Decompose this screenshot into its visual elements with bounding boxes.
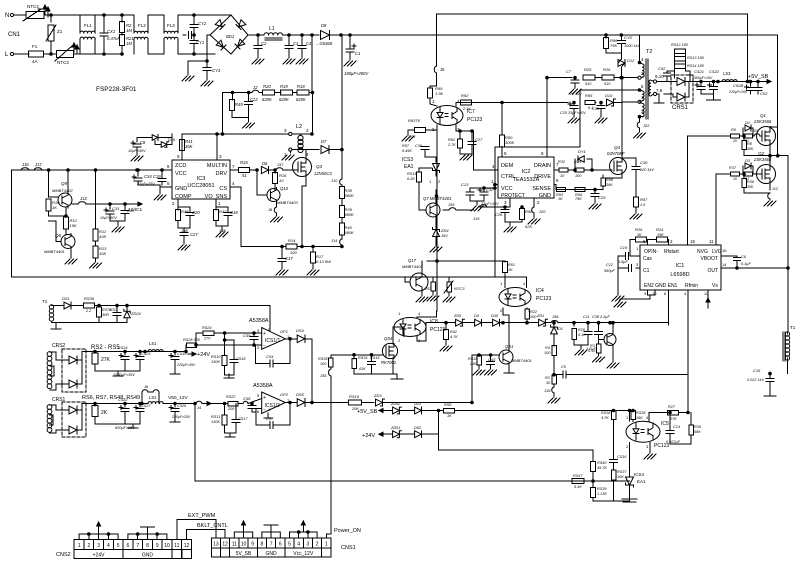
svg-text:NTC4: NTC4 xyxy=(27,4,39,9)
svg-text:C326: C326 xyxy=(177,404,187,408)
resistor R48 xyxy=(176,205,190,233)
svg-text:Q4: Q4 xyxy=(614,145,621,150)
svg-text:16: 16 xyxy=(722,248,727,253)
svg-text:220µF×35V: 220µF×35V xyxy=(176,363,196,367)
capacitor CS2B xyxy=(728,80,755,94)
svg-text:C4: C4 xyxy=(306,41,312,46)
svg-text:10: 10 xyxy=(560,174,565,178)
svg-text:2: 2 xyxy=(172,201,175,206)
svg-text:DS1: DS1 xyxy=(62,296,70,301)
svg-text:MMBT4401: MMBT4401 xyxy=(511,358,532,363)
svg-text:J17: J17 xyxy=(35,162,42,167)
capacitor C27 xyxy=(460,131,483,160)
IC U1 box xyxy=(640,245,722,290)
mosfet Q1 xyxy=(753,113,778,156)
capacitor C10 xyxy=(110,203,135,232)
capacitor CS16 xyxy=(610,455,628,470)
svg-text:2SK3568: 2SK3568 xyxy=(753,157,772,162)
svg-text:Cas: Cas xyxy=(643,256,652,262)
resistor R98b xyxy=(520,206,534,229)
svg-text:GND: GND xyxy=(266,551,278,557)
svg-text:IC8: IC8 xyxy=(430,319,438,325)
svg-text:10: 10 xyxy=(164,543,170,549)
svg-text:RS22: RS22 xyxy=(226,395,236,399)
capacitor C39 xyxy=(592,103,607,124)
capacitor C32 xyxy=(470,187,499,211)
diode D16 xyxy=(155,138,175,148)
pin12 Vs xyxy=(704,290,710,308)
svg-text:Q10: Q10 xyxy=(280,186,289,191)
inductor LS3 xyxy=(717,71,748,83)
svg-text:CNS2: CNS2 xyxy=(56,552,71,558)
snubber C30 xyxy=(622,158,654,197)
resistor RS15 xyxy=(407,168,432,190)
svg-text:16K: 16K xyxy=(636,416,643,420)
capacitor CS24 xyxy=(118,346,129,371)
svg-text:R42: R42 xyxy=(219,209,227,214)
wire xyxy=(193,53,215,56)
svg-text:RS36: RS36 xyxy=(636,411,646,415)
capacitor C13 xyxy=(461,182,495,201)
pin 7 DRV xyxy=(230,164,238,170)
svg-text:100: 100 xyxy=(575,174,582,178)
diode D7 xyxy=(321,139,343,154)
svg-text:3: 3 xyxy=(257,328,260,333)
svg-text:EA1: EA1 xyxy=(637,479,646,484)
svg-text:1K: 1K xyxy=(508,268,513,272)
svg-text:RS24: RS24 xyxy=(202,326,212,330)
capacitor CY3 xyxy=(201,61,221,86)
resistor RS37 xyxy=(611,470,627,480)
svg-text:10µF×50V: 10µF×50V xyxy=(128,149,146,153)
svg-text:15: 15 xyxy=(690,239,696,244)
svg-text:2: 2 xyxy=(438,179,441,184)
resistor RS8 xyxy=(439,403,635,418)
svg-text:270: 270 xyxy=(203,337,211,341)
pin2 xyxy=(669,239,673,245)
pin3 PROTECT xyxy=(504,198,510,207)
svg-text:6: 6 xyxy=(556,178,559,183)
jumper J35 xyxy=(320,367,331,534)
resistor RS19 xyxy=(349,394,375,411)
svg-text:IC2: IC2 xyxy=(522,169,531,175)
svg-text:J15: J15 xyxy=(544,388,551,393)
connector CN1 xyxy=(5,13,21,58)
wire B+ sense xyxy=(341,35,343,179)
pin 3 xyxy=(216,133,222,160)
svg-text:1: 1 xyxy=(636,246,639,251)
svg-text:Vs: Vs xyxy=(712,283,718,289)
label +24V xyxy=(185,345,211,358)
capacitor C34 xyxy=(132,169,161,186)
svg-text:C2: C2 xyxy=(261,41,267,46)
svg-text:220µF×16V: 220µF×16V xyxy=(728,90,748,94)
pin 4 CS xyxy=(230,181,286,247)
svg-text:D52: D52 xyxy=(414,426,422,430)
svg-text:J36: J36 xyxy=(552,314,559,319)
svg-text:8: 8 xyxy=(261,542,264,548)
svg-text:BKLT_CNTL: BKLT_CNTL xyxy=(197,523,228,529)
diode D10 xyxy=(605,93,638,106)
svg-text:12: 12 xyxy=(222,542,228,548)
svg-text:GND: GND xyxy=(539,193,551,199)
zener ZD24 xyxy=(124,304,142,322)
thermistor NTC4 xyxy=(14,4,44,21)
wire xyxy=(104,15,122,54)
svg-text:11: 11 xyxy=(232,542,237,548)
svg-text:3: 3 xyxy=(636,262,639,267)
svg-text:PC123: PC123 xyxy=(536,296,552,302)
svg-text:DEM: DEM xyxy=(501,163,514,169)
capacitor C22 xyxy=(232,93,258,129)
pin3 C1 xyxy=(604,256,640,301)
resistor R98 xyxy=(601,178,614,190)
opamp ICS1-1 xyxy=(249,318,290,350)
svg-text:CN1: CN1 xyxy=(8,32,21,38)
pin 5 xyxy=(177,154,182,160)
capacitor C53 xyxy=(754,80,768,96)
IC ICS4 EA1 xyxy=(622,472,646,499)
svg-text:C53: C53 xyxy=(760,91,768,96)
svg-text:3: 3 xyxy=(97,543,100,549)
capacitor CS22b xyxy=(118,398,129,424)
svg-text:C12: C12 xyxy=(606,263,614,267)
svg-text:R15: R15 xyxy=(240,160,248,165)
resistor R95 xyxy=(585,93,596,110)
jumper J10 xyxy=(331,178,342,187)
svg-text:30R: 30R xyxy=(102,313,109,317)
svg-text:R92: R92 xyxy=(461,93,469,98)
svg-text:+24V: +24V xyxy=(362,433,375,439)
svg-text:8: 8 xyxy=(664,291,667,296)
svg-text:ZD52: ZD52 xyxy=(390,402,401,406)
resistor R92 xyxy=(461,93,472,111)
svg-text:R48: R48 xyxy=(181,209,189,214)
diode DY1 xyxy=(574,149,594,171)
resistor R4 xyxy=(544,346,556,377)
svg-text:10µF×50V: 10µF×50V xyxy=(100,216,117,220)
svg-text:3: 3 xyxy=(504,200,507,205)
svg-text:RS18: RS18 xyxy=(468,357,478,361)
svg-text:3: 3 xyxy=(284,128,287,133)
resistor R3 xyxy=(588,341,605,362)
capacitor C2 xyxy=(252,34,267,64)
svg-text:ZCD: ZCD xyxy=(175,163,186,169)
svg-text:D3: D3 xyxy=(745,159,751,163)
svg-text:1500µF×16V: 1500µF×16V xyxy=(692,76,713,80)
svg-text:11: 11 xyxy=(174,543,179,549)
svg-text:FL1: FL1 xyxy=(84,23,92,28)
wire xyxy=(312,93,314,135)
wire 5VSB top right xyxy=(746,14,749,83)
svg-text:2: 2 xyxy=(87,543,90,549)
wire 12v sense xyxy=(218,395,262,411)
svg-text:ICS4: ICS4 xyxy=(634,472,645,477)
svg-text:0.47uF: 0.47uF xyxy=(107,36,120,41)
svg-text:5.1K: 5.1K xyxy=(574,485,582,489)
transformer T1r xyxy=(783,325,796,374)
wire xyxy=(223,93,290,135)
diode DS5 xyxy=(290,392,348,406)
svg-text:D12: D12 xyxy=(627,58,635,63)
svg-text:10: 10 xyxy=(241,542,247,548)
svg-text:MMBT4403: MMBT4403 xyxy=(277,200,298,205)
inductor L2 xyxy=(223,124,320,160)
varistor Z1 xyxy=(46,15,63,54)
resistor R36 xyxy=(742,173,755,193)
svg-text:D6: D6 xyxy=(262,161,268,166)
svg-text:5: 5 xyxy=(257,393,260,398)
wire op1 vcc xyxy=(269,306,271,331)
wire Q3 source xyxy=(301,186,304,248)
svg-text:RS11: RS11 xyxy=(211,415,220,419)
svg-text:680K: 680K xyxy=(345,193,355,198)
svg-text:1: 1 xyxy=(398,311,401,316)
svg-text:LVG: LVG xyxy=(712,249,722,255)
svg-text:Rfmin: Rfmin xyxy=(685,283,698,289)
resistors RS12 RS13 RS14 xyxy=(671,43,705,78)
svg-text:CS9: CS9 xyxy=(243,334,251,338)
pin2 GND xyxy=(528,198,546,224)
svg-text:100: 100 xyxy=(320,362,327,366)
capacitor CS27 xyxy=(95,404,151,431)
svg-text:4: 4 xyxy=(646,415,649,420)
wire node xyxy=(302,34,319,37)
wire ic5 pin2 xyxy=(629,443,631,478)
svg-text:75K: 75K xyxy=(610,43,617,48)
resistor R16 xyxy=(273,169,288,190)
svg-text:OUT: OUT xyxy=(707,268,718,274)
svg-text:180µF×450V: 180µF×450V xyxy=(344,71,369,76)
capacitor C16 xyxy=(747,368,776,396)
mosfet QS4 xyxy=(354,327,404,379)
svg-text:10K: 10K xyxy=(99,251,106,256)
svg-text:ZD5: ZD5 xyxy=(453,314,462,318)
svg-text:DRAIN: DRAIN xyxy=(534,163,551,169)
label +24Vb xyxy=(362,432,392,439)
svg-text:12N50C3: 12N50C3 xyxy=(314,171,332,176)
svg-text:10: 10 xyxy=(279,178,284,183)
capacitor C38 xyxy=(592,315,610,341)
svg-text:1K: 1K xyxy=(558,197,563,201)
svg-text:V50_12V: V50_12V xyxy=(168,395,189,401)
resistor RS6 xyxy=(92,402,108,424)
zener ZD52 xyxy=(390,402,414,414)
svg-text:Power_ON: Power_ON xyxy=(334,528,361,534)
wire 481 xyxy=(195,480,630,482)
svg-text:6.2K: 6.2K xyxy=(407,177,415,181)
svg-text:RS34: RS34 xyxy=(358,356,368,360)
pin15 NVG xyxy=(688,136,696,245)
resistor R24 xyxy=(630,227,669,256)
svg-text:LS1: LS1 xyxy=(149,341,157,346)
svg-text:C33 33µF×50V: C33 33µF×50V xyxy=(560,111,586,115)
svg-text:CS8: CS8 xyxy=(243,397,251,401)
diode D30 xyxy=(491,314,537,326)
svg-text:5: 5 xyxy=(177,154,180,159)
pin9 pin10 xyxy=(614,290,657,307)
capacitor CS15 xyxy=(368,355,381,374)
optocoupler IC4 xyxy=(499,281,552,313)
arrows xyxy=(72,43,79,54)
svg-text:1000 1kV: 1000 1kV xyxy=(624,44,641,48)
svg-text:R98: R98 xyxy=(606,178,614,182)
resistor R2 xyxy=(120,14,133,33)
svg-text:36K: 36K xyxy=(606,183,613,187)
svg-text:OPIN-: OPIN- xyxy=(644,249,658,255)
wire VCC xyxy=(494,147,497,277)
wire 12v fb down xyxy=(194,404,196,482)
resistor chain R20 R19 R18 xyxy=(247,84,313,102)
svg-text:45.7K: 45.7K xyxy=(597,466,607,470)
svg-text:21K: 21K xyxy=(469,362,477,366)
svg-text:R2: R2 xyxy=(545,376,551,380)
optocoupler IC8 xyxy=(394,311,446,343)
svg-text:30: 30 xyxy=(546,381,551,385)
wire bottom rail xyxy=(11,276,495,278)
svg-text:VCC: VCC xyxy=(501,186,513,192)
bracket GND2 xyxy=(128,527,167,539)
wire xyxy=(330,34,350,37)
wire gnd bar xyxy=(593,498,630,501)
svg-text:L1: L1 xyxy=(269,26,275,32)
rectifier CRS1b xyxy=(47,397,86,437)
capacitor C7 xyxy=(566,69,582,96)
svg-text:D1: D1 xyxy=(558,327,563,331)
pin6 xyxy=(643,239,648,245)
rail 12V xyxy=(82,395,140,404)
svg-text:27K: 27K xyxy=(101,357,111,363)
svg-text:220 1kV: 220 1kV xyxy=(639,168,654,172)
svg-text:R26: R26 xyxy=(635,227,643,232)
net BKLT_CNTL xyxy=(187,523,228,539)
pin 2 COMP xyxy=(172,199,178,206)
svg-text:9: 9 xyxy=(644,291,647,296)
svg-text:Q17: Q17 xyxy=(408,258,417,263)
svg-text:16V: 16V xyxy=(441,234,448,238)
bracket 5VSB xyxy=(234,521,252,538)
svg-text:7: 7 xyxy=(232,164,235,169)
svg-text:T1: T1 xyxy=(42,299,48,304)
svg-text:100: 100 xyxy=(290,250,297,255)
svg-text:RS39: RS39 xyxy=(597,487,607,491)
svg-text:CNS1: CNS1 xyxy=(341,545,356,551)
svg-text:J37: J37 xyxy=(277,162,284,167)
capacitor C8 xyxy=(128,138,148,162)
svg-text:4.7K: 4.7K xyxy=(450,335,458,339)
IC ICS3 EA1 xyxy=(402,144,441,184)
jumper J13 xyxy=(72,196,110,204)
svg-text:5: 5 xyxy=(504,151,507,156)
svg-text:T2: T2 xyxy=(646,49,652,55)
svg-text:ZD1: ZD1 xyxy=(536,314,544,318)
svg-text:3: 3 xyxy=(307,542,310,548)
svg-text:5: 5 xyxy=(117,543,120,549)
svg-text:680K: 680K xyxy=(345,212,355,217)
zener ZD3 xyxy=(373,393,472,406)
svg-text:C39: C39 xyxy=(592,107,600,111)
inductor LS1 xyxy=(144,341,186,353)
svg-text:22 1kV: 22 1kV xyxy=(569,92,582,96)
zener ZD5 xyxy=(453,314,474,326)
resistor R13 xyxy=(90,246,108,268)
svg-text:RS14 180: RS14 180 xyxy=(687,64,705,68)
svg-text:Q2: Q2 xyxy=(758,151,765,156)
svg-text:J13: J13 xyxy=(80,196,87,201)
svg-text:12: 12 xyxy=(704,291,709,296)
svg-text:1M: 1M xyxy=(126,41,132,46)
svg-text:36K: 36K xyxy=(185,144,193,149)
rail 5VSB xyxy=(693,74,771,84)
svg-text:680K: 680K xyxy=(345,230,355,235)
bridge BD1 xyxy=(194,15,248,54)
svg-text:1: 1 xyxy=(218,201,221,206)
ground xyxy=(614,482,637,502)
svg-text:4A: 4A xyxy=(32,59,38,64)
gate line xyxy=(331,354,383,357)
feedback CS4 xyxy=(256,338,292,368)
svg-text:L: L xyxy=(5,52,9,58)
svg-text:C16: C16 xyxy=(753,368,761,373)
capacitor CS9 xyxy=(243,332,258,347)
svg-text:C20: C20 xyxy=(192,210,200,215)
svg-text:CS1: CS1 xyxy=(110,307,118,312)
mosfet Q2 xyxy=(753,151,776,188)
svg-text:4: 4 xyxy=(297,542,300,548)
resistor R39 xyxy=(339,205,354,223)
svg-text:1: 1 xyxy=(429,179,432,184)
svg-text:J19: J19 xyxy=(473,216,480,221)
svg-text:RS10: RS10 xyxy=(211,355,221,359)
svg-text:3: 3 xyxy=(219,154,222,159)
svg-text:SENSE: SENSE xyxy=(532,186,551,192)
svg-text:EXT_PWM: EXT_PWM xyxy=(188,513,216,519)
svg-text:ICS1/2: ICS1/2 xyxy=(265,403,281,409)
svg-text:4: 4 xyxy=(641,57,644,62)
wire midpoint xyxy=(744,154,788,332)
svg-text:GND: GND xyxy=(175,186,187,192)
svg-text:9: 9 xyxy=(156,543,159,549)
capacitor C20 xyxy=(178,207,200,228)
svg-text:C7: C7 xyxy=(566,69,572,74)
svg-text:CY5: CY5 xyxy=(624,35,633,40)
secondary T2 xyxy=(649,74,664,103)
rectifier CRS1 xyxy=(664,75,693,111)
svg-text:R9376: R9376 xyxy=(408,118,421,123)
svg-text:C2Y: C2Y xyxy=(190,232,199,237)
svg-text:R27: R27 xyxy=(668,405,676,409)
svg-text:R4: R4 xyxy=(545,346,550,350)
resistor R51 xyxy=(503,261,515,288)
svg-text:MMBT4401: MMBT4401 xyxy=(44,249,65,254)
svg-text:D2: D2 xyxy=(745,121,751,125)
resistor R37B xyxy=(97,304,112,322)
resistor RS38 xyxy=(601,409,616,459)
resistor RS18 xyxy=(468,354,485,375)
svg-text:1: 1 xyxy=(325,542,328,548)
capacitor CS18 xyxy=(223,339,246,378)
svg-text:D10: D10 xyxy=(605,93,613,98)
svg-text:2: 2 xyxy=(670,239,673,244)
svg-text:CY2: CY2 xyxy=(198,21,207,26)
svg-text:NTC3: NTC3 xyxy=(454,286,465,291)
transistor Q10 net xyxy=(256,169,259,195)
svg-text:8: 8 xyxy=(541,151,544,156)
svg-text:1.13K: 1.13K xyxy=(597,492,607,496)
svg-text:62K: 62K xyxy=(525,224,532,229)
svg-text:RS15: RS15 xyxy=(407,172,417,176)
svg-text:R18: R18 xyxy=(297,84,305,89)
